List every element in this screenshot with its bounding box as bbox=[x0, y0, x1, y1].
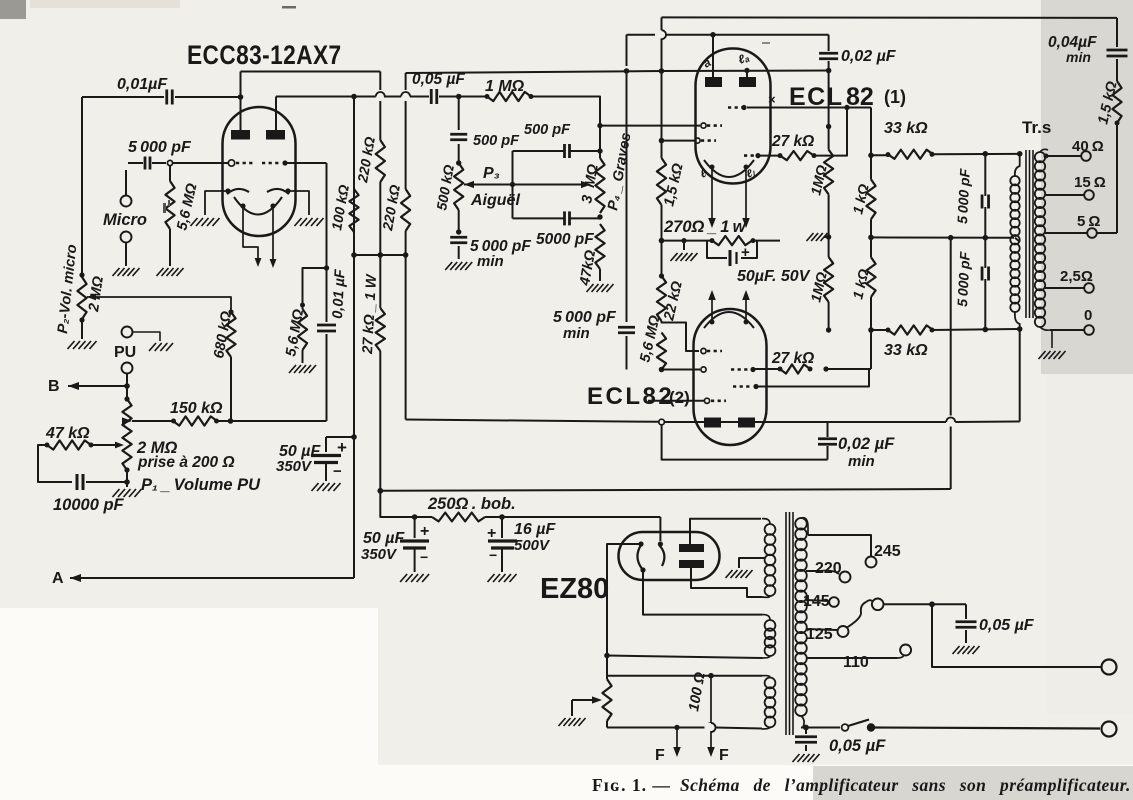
capacitor 5000 pF min treble bottom bbox=[450, 236, 467, 239]
resistor 27 kOhm 1W bbox=[376, 308, 385, 351]
resistor 1 MOhm lower bbox=[824, 257, 833, 302]
ground cathode stub bbox=[681, 238, 686, 243]
resistor 1 kOhm lower bbox=[870, 237, 872, 257]
tube ECL82 (1) envelope bbox=[696, 49, 771, 184]
ground 47k bbox=[587, 284, 594, 292]
wire 1M to P4 column bbox=[531, 97, 600, 152]
resistor 1,5 kOhm cathode ECL82-1 bbox=[657, 158, 666, 205]
svg-text:220: 220 bbox=[815, 560, 842, 577]
wire top-left horizontal y=97 bbox=[82, 96, 164, 98]
capacitor 0,02 uF min snubber loop bbox=[662, 425, 828, 460]
svg-text:5 000 pF: 5 000 pF bbox=[954, 251, 973, 307]
ground P1 bbox=[113, 489, 120, 497]
wire x=828.6 column bbox=[828, 71, 830, 127]
wire bracket treble caps x=512.5 bbox=[512, 151, 514, 218]
power transformer winding 3 (heater 6,3V) bbox=[765, 678, 776, 689]
switch mains bbox=[803, 725, 809, 731]
svg-text:5 000 pF: 5 000 pF bbox=[128, 139, 192, 156]
capacitor 0,01 uF triode2 grid bbox=[326, 163, 328, 322]
svg-text:110: 110 bbox=[843, 654, 869, 671]
wire top bus A y=71.5 over ECC83 bbox=[241, 71, 381, 73]
jack PU top with ground link bbox=[122, 327, 133, 338]
capacitor 0,05 uF mains filter upper bbox=[965, 604, 967, 619]
wire x=354 down to A line bbox=[353, 97, 355, 438]
cathode arc triode 1 bbox=[227, 189, 249, 194]
svg-text:A: A bbox=[52, 570, 64, 587]
ground secondary bbox=[1051, 330, 1053, 348]
anode plates ECL82-1 (boxes) bbox=[705, 77, 722, 87]
wire cathode1 to ground bbox=[205, 191, 228, 215]
capacitor 500 pF treble top bbox=[458, 97, 460, 131]
capacitor 5000 pF transformer upper bbox=[983, 151, 989, 157]
primary winding mains bbox=[795, 518, 807, 530]
svg-text:270Ω _ 1 w: 270Ω _ 1 w bbox=[663, 218, 747, 236]
grid row3 y=386.5 bbox=[733, 385, 750, 388]
resistor 22 kOhm bbox=[657, 276, 666, 321]
heater wire 2 with arrow down bbox=[272, 206, 274, 255]
capacitor 0,02 uF feedback ECL82-1 bbox=[828, 35, 830, 51]
wire to mains terminal 1 bbox=[932, 604, 1101, 667]
resistor 47 kOhm bass bottom bbox=[595, 224, 604, 269]
core power transformer bbox=[785, 512, 787, 735]
svg-text:+: + bbox=[741, 244, 750, 261]
wire junction bar y=255 bbox=[354, 254, 406, 256]
wire F drop 2 bbox=[710, 676, 712, 723]
svg-text:min: min bbox=[1066, 49, 1091, 65]
terminal 5 Ohm bbox=[1087, 228, 1097, 238]
capacitor 0,05 uF mains filter lower bbox=[805, 728, 807, 735]
svg-text:0,02 µF: 0,02 µF bbox=[841, 48, 897, 65]
wire ECL82-2 grid feed y=369 bbox=[870, 330, 872, 369]
grid dashes triode 2 bbox=[262, 162, 281, 165]
svg-text:F: F bbox=[655, 747, 665, 764]
potentiometer P2 Vol. micro 2 MOhm bbox=[81, 272, 83, 277]
terminal 40 Ohm bbox=[1081, 151, 1091, 161]
svg-text:−: − bbox=[333, 463, 342, 480]
grid row1 y=351 bbox=[701, 348, 706, 353]
svg-text:min: min bbox=[848, 453, 875, 470]
svg-text:15 Ω: 15 Ω bbox=[1074, 174, 1106, 191]
resistor 1,5 kOhm feedback bbox=[1112, 81, 1121, 123]
svg-text:−: − bbox=[420, 549, 428, 565]
wire x=871 column bbox=[870, 108, 872, 180]
resistor 220 kOhm first bbox=[376, 140, 385, 182]
capacitor 50 uF 350V second bbox=[414, 517, 416, 538]
svg-text:P₃: P₃ bbox=[483, 165, 500, 182]
tube ECC83 envelope bbox=[223, 107, 296, 236]
svg-text:0: 0 bbox=[1084, 307, 1092, 324]
heater arc ECL82-2 top bbox=[704, 312, 754, 328]
grid row2 y=369.5 from 5,6M bbox=[662, 369, 701, 371]
screen pin to bus2 bbox=[712, 35, 714, 77]
wire heater line y=675.7 bbox=[607, 675, 762, 677]
svg-text:500 pF: 500 pF bbox=[473, 133, 520, 149]
node anode1 junction bbox=[238, 94, 244, 100]
resistor 1 MOhm upper bbox=[828, 127, 830, 150]
grid row y=107.5 (g2) bbox=[728, 106, 742, 109]
potentiometer P3 500 kOhm Aigue bbox=[454, 163, 463, 210]
svg-text:500V: 500V bbox=[514, 537, 551, 554]
primary centre tap bbox=[1015, 238, 1020, 242]
wire selector to output bbox=[884, 603, 933, 605]
wire cathode2 to ground bbox=[288, 191, 309, 215]
svg-text:145: 145 bbox=[803, 593, 830, 610]
jack Micro top bbox=[121, 196, 132, 207]
svg-text:(2): (2) bbox=[669, 388, 690, 407]
svg-text:prise à 200 Ω: prise à 200 Ω bbox=[137, 454, 235, 471]
heater pin left to 100R bbox=[638, 541, 643, 546]
capacitor 5000 pF min (ECL82-2 grid) bbox=[618, 326, 635, 329]
cathode arc triode 2 bbox=[267, 189, 289, 194]
wire x=405.6 vertical (220k column 2) bbox=[405, 73, 407, 92]
svg-text:B: B bbox=[48, 378, 60, 395]
wire top bus y=17.4 bbox=[662, 16, 1118, 19]
svg-text:min: min bbox=[477, 253, 504, 270]
svg-text:F: F bbox=[719, 747, 729, 764]
svg-text:10000 pF: 10000 pF bbox=[53, 496, 125, 514]
terminal 125 bbox=[838, 626, 849, 637]
capacitor 0,01 uF input bbox=[165, 90, 168, 105]
svg-text:350V: 350V bbox=[276, 458, 313, 475]
svg-text:150 kΩ: 150 kΩ bbox=[170, 400, 223, 417]
svg-text:0,02 µF: 0,02 µF bbox=[838, 435, 895, 453]
wire mains tap 125 bbox=[806, 629, 837, 630]
wire grid1 from cap bbox=[173, 162, 228, 164]
power transformer winding 2 (rectifier heater) bbox=[765, 620, 776, 631]
svg-text:16 µF: 16 µF bbox=[514, 521, 556, 538]
node micro cap junction (open) bbox=[167, 160, 172, 165]
capacitor 16 uF 500V bbox=[501, 517, 503, 538]
svg-text:1 MΩ: 1 MΩ bbox=[485, 78, 525, 95]
ground 5,6M bbox=[157, 268, 164, 276]
resistor 5,6 MOhm ECL82-2 grid bbox=[657, 333, 666, 370]
svg-text:47 kΩ: 47 kΩ bbox=[45, 425, 90, 442]
svg-text:ECC83-12AX7: ECC83-12AX7 bbox=[187, 40, 342, 70]
capacitor 5000 pF transformer lower bbox=[984, 238, 986, 268]
secondary taps bbox=[1046, 155, 1082, 157]
anode1 wire to HT top bbox=[690, 519, 761, 544]
resistor 5,6 MOhm grid1 leak bbox=[169, 166, 171, 181]
capacitor 50 uF 350V first bbox=[351, 434, 357, 440]
resistor 1 kOhm upper bbox=[866, 179, 875, 219]
svg-text:40 Ω: 40 Ω bbox=[1072, 138, 1104, 155]
heater wire 1 with arrow down bbox=[243, 206, 258, 252]
wire plate bus y=71.6 (long) bbox=[406, 71, 662, 73]
svg-text:33 kΩ: 33 kΩ bbox=[884, 342, 928, 359]
anode plates EZ80 (boxes) bbox=[679, 544, 704, 552]
capacitor 50 uF 50V cathode bypass bbox=[707, 241, 727, 258]
HT centre tap to ground bbox=[739, 558, 765, 568]
svg-text:50 µF: 50 µF bbox=[363, 530, 405, 547]
ground 5,6M#2 bbox=[289, 365, 296, 373]
anode plates ECL82-2 (boxes at bottom) bbox=[704, 418, 721, 428]
resistor 5,6 MOhm triode2 bbox=[303, 268, 327, 309]
wire B+ rail y=490.8 bbox=[377, 488, 383, 494]
svg-text:125: 125 bbox=[806, 626, 833, 643]
terminal 2,5 Ohm bbox=[1084, 283, 1094, 293]
wire bus2 y=34.7 screen feed bbox=[627, 34, 829, 36]
grid row4 y=400.8 bbox=[704, 398, 709, 403]
scan specks (decorative) bbox=[282, 6, 296, 9]
svg-text:min: min bbox=[563, 325, 590, 342]
heater pin bottom to winding2 bbox=[640, 567, 645, 572]
terminal 15 Ohm bbox=[1084, 190, 1094, 200]
svg-text:−: − bbox=[712, 250, 720, 265]
cathode arcs EZ80 bbox=[637, 545, 643, 570]
svg-text:Schéma de l’amplificateur sans: Schéma de l’amplificateur sans son préam… bbox=[680, 775, 1131, 795]
svg-text:250Ω . bob.: 250Ω . bob. bbox=[427, 495, 516, 513]
wire grid row3 step bbox=[767, 369, 869, 387]
terminal mains 1 bbox=[1102, 660, 1117, 675]
resistor 100 Ohm hum pot bbox=[606, 676, 608, 679]
wire grid2 horizontal bbox=[285, 162, 327, 164]
wire A line bbox=[70, 577, 354, 579]
potentiometer P1 Volume PU 2 MOhm bbox=[124, 396, 129, 401]
wire micro jack to cap bbox=[125, 170, 127, 195]
svg-text:P₁ _ Volume PU: P₁ _ Volume PU bbox=[141, 476, 261, 494]
wire PU to P1 top bbox=[126, 374, 128, 385]
wire mains tap 220 bbox=[806, 570, 820, 572]
wire choke line into cathode pin bbox=[659, 517, 661, 541]
wire 47k to P1 tap (arrow) bbox=[91, 444, 120, 446]
wire mains tap 110 bbox=[806, 657, 897, 659]
svg-text:5 Ω: 5 Ω bbox=[1077, 213, 1100, 230]
svg-text:27 kΩ: 27 kΩ bbox=[771, 133, 814, 150]
wire F drop 1 bbox=[674, 725, 679, 730]
svg-text:5 000 pF: 5 000 pF bbox=[954, 168, 973, 224]
contact circle bbox=[872, 599, 884, 611]
terminal 245 bbox=[866, 557, 877, 568]
svg-text:(1): (1) bbox=[884, 87, 906, 107]
heater arc bottom bbox=[234, 197, 282, 215]
ground cathode1 bbox=[191, 218, 198, 226]
wire 22k column bbox=[661, 241, 663, 276]
jack PU bottom bbox=[122, 363, 133, 374]
wire P1 wiper to 150k (arrow) bbox=[122, 417, 132, 424]
wire x=380 vertical (220k column) bbox=[379, 72, 381, 141]
svg-text:ECL82: ECL82 bbox=[587, 383, 674, 410]
svg-text:EZ80: EZ80 bbox=[540, 573, 609, 605]
terminal 110 bbox=[900, 645, 911, 656]
wire cathode junction to 270R bbox=[659, 238, 665, 244]
wire mains tap 245 bbox=[801, 518, 808, 535]
svg-text:Tr.s: Tr.s bbox=[1022, 118, 1051, 137]
svg-text:Micro: Micro bbox=[103, 211, 147, 229]
wire 47k left down bbox=[38, 445, 72, 482]
jack Micro bottom bbox=[121, 232, 132, 243]
wire primary bottom y=727.5 bbox=[801, 716, 804, 727]
wiper P2 wire to 680k bbox=[87, 294, 96, 301]
svg-text:50µF. 50V: 50µF. 50V bbox=[737, 268, 811, 285]
svg-text:+: + bbox=[420, 523, 429, 540]
wire x=661.5 column bbox=[661, 17, 663, 31]
wire y=97 to 0,05uF bbox=[354, 96, 376, 98]
svg-text:0,01µF: 0,01µF bbox=[117, 76, 168, 93]
wire 22k to triode grid step bbox=[662, 321, 700, 351]
wire x=354 vertical (100k column) bbox=[351, 94, 357, 100]
potentiometer P4 3 MOhm Graves bbox=[595, 158, 604, 213]
tube EZ80 envelope bbox=[619, 532, 720, 580]
svg-text:500 pF: 500 pF bbox=[524, 122, 571, 138]
anode2 wire to HT bottom bbox=[691, 568, 762, 597]
terminal mains 2 bbox=[1102, 722, 1117, 737]
heater arrows up ECL82-2 bbox=[711, 299, 713, 321]
ground 50uF first bbox=[312, 483, 319, 491]
core Tr.s bbox=[1025, 150, 1027, 318]
svg-text:×: × bbox=[768, 92, 776, 107]
terminal 145 bbox=[829, 597, 839, 607]
svg-text:0,05 µF: 0,05 µF bbox=[979, 617, 1035, 634]
svg-text:0,01 µF: 0,01 µF bbox=[330, 268, 349, 319]
svg-text:350V: 350V bbox=[361, 546, 398, 563]
wire heater bottom y=727.5 bbox=[607, 727, 707, 729]
ground cathode2 bbox=[295, 218, 302, 226]
wire screen mid line y=237.7 bbox=[871, 236, 1014, 238]
anode line ECL82-2 y=420 bbox=[659, 419, 665, 425]
terminal 220 bbox=[840, 572, 851, 583]
svg-text:Fɪɢ. 1. —: Fɪɢ. 1. — bbox=[592, 775, 671, 795]
svg-text:0,05 µF: 0,05 µF bbox=[829, 737, 886, 755]
wire winding2 bottom to HT out bbox=[762, 656, 770, 658]
svg-text:245: 245 bbox=[874, 543, 901, 560]
wire choke feed bbox=[380, 491, 414, 517]
heater pins bbox=[240, 203, 245, 208]
svg-text:5000 pF: 5000 pF bbox=[536, 231, 594, 248]
node 5,6M junction bbox=[324, 265, 329, 270]
anode pin to plate line bbox=[746, 71, 748, 78]
switch selector curve 125 to contact bbox=[847, 600, 872, 627]
wire B+ riser x=950.7 bbox=[950, 238, 952, 418]
resistor 100 kOhm bbox=[349, 189, 358, 232]
capacitor 5000 pF second bbox=[513, 217, 565, 219]
ground P2 bbox=[68, 341, 75, 349]
primary winding Tr.s bbox=[1010, 176, 1019, 185]
anode plates of ECC83 (filled boxes) bbox=[231, 130, 250, 140]
ground 5000pF min bbox=[445, 262, 452, 270]
wire 220k2 column to anode line bbox=[405, 255, 407, 420]
wire 10000pF to P1 bottom bbox=[86, 481, 127, 483]
wire left vertical x=82 down to P2 bbox=[81, 97, 83, 272]
wire micro bottom jack to ground bbox=[125, 243, 127, 266]
wire mains tap 145 bbox=[806, 600, 829, 601]
wire x=626.5 column (5000pF min 2) bbox=[626, 71, 628, 322]
resistor 680 kOhm bbox=[228, 309, 233, 314]
mini ground at 1M junction bbox=[828, 194, 830, 257]
resistor 220 kOhm second bbox=[401, 189, 410, 231]
svg-text:33 kΩ: 33 kΩ bbox=[884, 120, 928, 137]
triode grid row y=155.6 bbox=[744, 154, 756, 157]
wire anode2 to y=96 bbox=[275, 97, 277, 132]
grid dashes triode 1 bbox=[228, 160, 234, 166]
secondary winding Tr.s bbox=[1035, 152, 1045, 162]
terminal 0 bbox=[1040, 327, 1050, 330]
grid row y=125.6 (g1) to P4 bbox=[701, 123, 706, 128]
cathode row y=140.6 bbox=[695, 138, 700, 143]
svg-text:−: − bbox=[489, 547, 497, 563]
svg-text:PU: PU bbox=[114, 344, 136, 361]
wire anode line to transformer bottom bbox=[1019, 329, 1021, 422]
tube ECL82 (2) envelope bbox=[694, 309, 767, 445]
wire anode1 stub bbox=[240, 97, 242, 131]
ground micro bbox=[113, 268, 120, 276]
wiper 100R to ground bbox=[592, 696, 602, 703]
wire B line bbox=[68, 385, 127, 387]
power transformer HT winding bbox=[765, 524, 776, 535]
capacitor 10000 pF bbox=[76, 474, 79, 490]
heater arc ECL82-1 bbox=[704, 160, 754, 177]
heater pins with arrows down bbox=[710, 165, 715, 170]
svg-text:5 000 pF: 5 000 pF bbox=[553, 309, 617, 326]
svg-text:2,5Ω: 2,5Ω bbox=[1060, 268, 1093, 285]
